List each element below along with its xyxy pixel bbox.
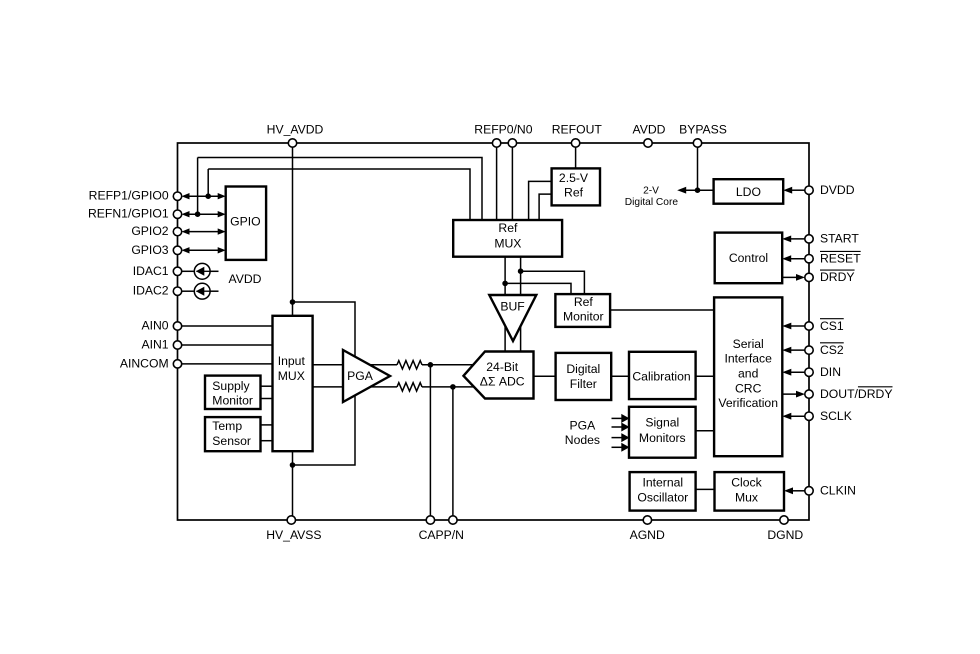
svg-text:Mux: Mux xyxy=(735,490,758,504)
svg-text:AVDD: AVDD xyxy=(633,122,666,136)
svg-text:PGA: PGA xyxy=(347,369,374,383)
svg-text:AGND: AGND xyxy=(630,528,665,542)
svg-text:AVDD: AVDD xyxy=(229,272,262,286)
svg-text:SCLK: SCLK xyxy=(820,409,852,423)
svg-text:Ref: Ref xyxy=(564,186,584,200)
svg-text:Calibration: Calibration xyxy=(632,370,690,384)
svg-text:REFN1/GPIO1: REFN1/GPIO1 xyxy=(88,207,169,221)
svg-text:BUF: BUF xyxy=(500,300,524,314)
svg-text:Monitors: Monitors xyxy=(639,431,686,445)
svg-text:HV_AVDD: HV_AVDD xyxy=(267,122,324,136)
svg-text:GPIO2: GPIO2 xyxy=(131,224,168,238)
svg-text:24-Bit: 24-Bit xyxy=(486,360,518,374)
svg-text:Internal: Internal xyxy=(642,475,683,489)
svg-text:Temp: Temp xyxy=(212,419,242,433)
svg-text:DGND: DGND xyxy=(767,528,803,542)
svg-text:CS2: CS2 xyxy=(820,343,844,357)
svg-text:HV_AVSS: HV_AVSS xyxy=(266,528,321,542)
svg-text:GPIO: GPIO xyxy=(230,214,260,228)
svg-text:Serial: Serial xyxy=(733,337,764,351)
svg-text:LDO: LDO xyxy=(736,185,761,199)
svg-text:Input: Input xyxy=(278,354,306,368)
svg-text:AINCOM: AINCOM xyxy=(120,356,169,370)
svg-text:Oscillator: Oscillator xyxy=(637,490,688,504)
svg-text:Monitor: Monitor xyxy=(212,393,253,407)
svg-text:RESET: RESET xyxy=(820,252,861,266)
svg-text:Supply: Supply xyxy=(212,379,250,393)
svg-text:Signal: Signal xyxy=(645,416,679,430)
svg-text:Monitor: Monitor xyxy=(563,309,604,323)
svg-text:Ref: Ref xyxy=(574,295,594,309)
svg-text:CLKIN: CLKIN xyxy=(820,484,856,498)
svg-text:BYPASS: BYPASS xyxy=(679,122,727,136)
svg-text:Sensor: Sensor xyxy=(212,434,251,448)
svg-text:DRDY: DRDY xyxy=(820,270,855,284)
svg-text:GPIO3: GPIO3 xyxy=(131,243,168,257)
svg-text:CAPP/N: CAPP/N xyxy=(419,528,464,542)
svg-text:2.5-V: 2.5-V xyxy=(559,171,589,185)
svg-text:Filter: Filter xyxy=(570,377,597,391)
svg-text:DOUT/DRDY: DOUT/DRDY xyxy=(820,387,892,401)
svg-text:ΔΣ ADC: ΔΣ ADC xyxy=(480,375,525,389)
svg-text:MUX: MUX xyxy=(494,237,521,251)
svg-text:2-V: 2-V xyxy=(643,186,659,197)
svg-text:Interface: Interface xyxy=(724,352,772,366)
svg-text:REFOUT: REFOUT xyxy=(552,122,603,136)
svg-text:CS1: CS1 xyxy=(820,319,844,333)
svg-text:START: START xyxy=(820,232,859,246)
svg-text:DVDD: DVDD xyxy=(820,183,855,197)
svg-text:IDAC2: IDAC2 xyxy=(133,284,169,298)
svg-text:Nodes: Nodes xyxy=(565,433,600,447)
svg-text:Clock: Clock xyxy=(731,475,762,489)
svg-text:Control: Control xyxy=(729,251,768,265)
svg-text:AIN1: AIN1 xyxy=(141,338,168,352)
svg-text:Digital Core: Digital Core xyxy=(625,197,679,208)
svg-text:DIN: DIN xyxy=(820,365,841,379)
svg-text:CRC: CRC xyxy=(735,381,762,395)
svg-text:and: and xyxy=(738,367,758,381)
svg-text:AIN0: AIN0 xyxy=(141,319,168,333)
svg-text:MUX: MUX xyxy=(278,369,305,383)
svg-text:Ref: Ref xyxy=(498,221,518,235)
svg-text:Digital: Digital xyxy=(566,362,600,376)
svg-text:IDAC1: IDAC1 xyxy=(133,264,169,278)
svg-text:Verification: Verification xyxy=(718,396,778,410)
svg-text:PGA: PGA xyxy=(570,419,597,433)
svg-text:REFP0/N0: REFP0/N0 xyxy=(474,122,532,136)
svg-text:REFP1/GPIO0: REFP1/GPIO0 xyxy=(89,189,169,203)
